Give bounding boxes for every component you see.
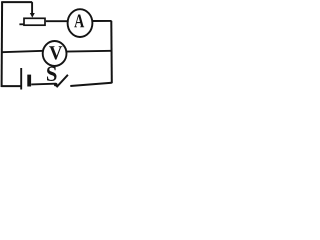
wire: battery to switch (31, 83, 55, 86)
wire: voltmeter left lead (2, 51, 44, 52)
wire: rheostat to ammeter (46, 20, 69, 22)
ammeter label A (74, 15, 84, 28)
wire: right vertical (110, 21, 113, 83)
voltmeter U2 body (oval) (43, 41, 67, 66)
switch label S (47, 67, 57, 82)
rheostat wiper arrowhead (30, 13, 35, 18)
wire: ammeter to top-right corner (92, 20, 111, 22)
resistor R (rheostat body) (24, 18, 45, 25)
wire: left vertical (1, 2, 3, 87)
wire: voltmeter right lead (66, 50, 112, 53)
switch S blade (57, 75, 68, 87)
rheostat left stub lead (19, 23, 24, 25)
wire: wiper drop to rheostat (31, 2, 33, 13)
ammeter U1 body (oval) (68, 9, 93, 37)
wire: top horizontal (1, 1, 32, 3)
battery short thick plate (27, 75, 31, 87)
switch S contact blob (54, 83, 58, 87)
wire: switch to bottom-right corner (70, 83, 112, 86)
wire: bottom left to battery (1, 85, 21, 87)
voltmeter label V (49, 46, 62, 59)
battery long plate (20, 68, 22, 90)
